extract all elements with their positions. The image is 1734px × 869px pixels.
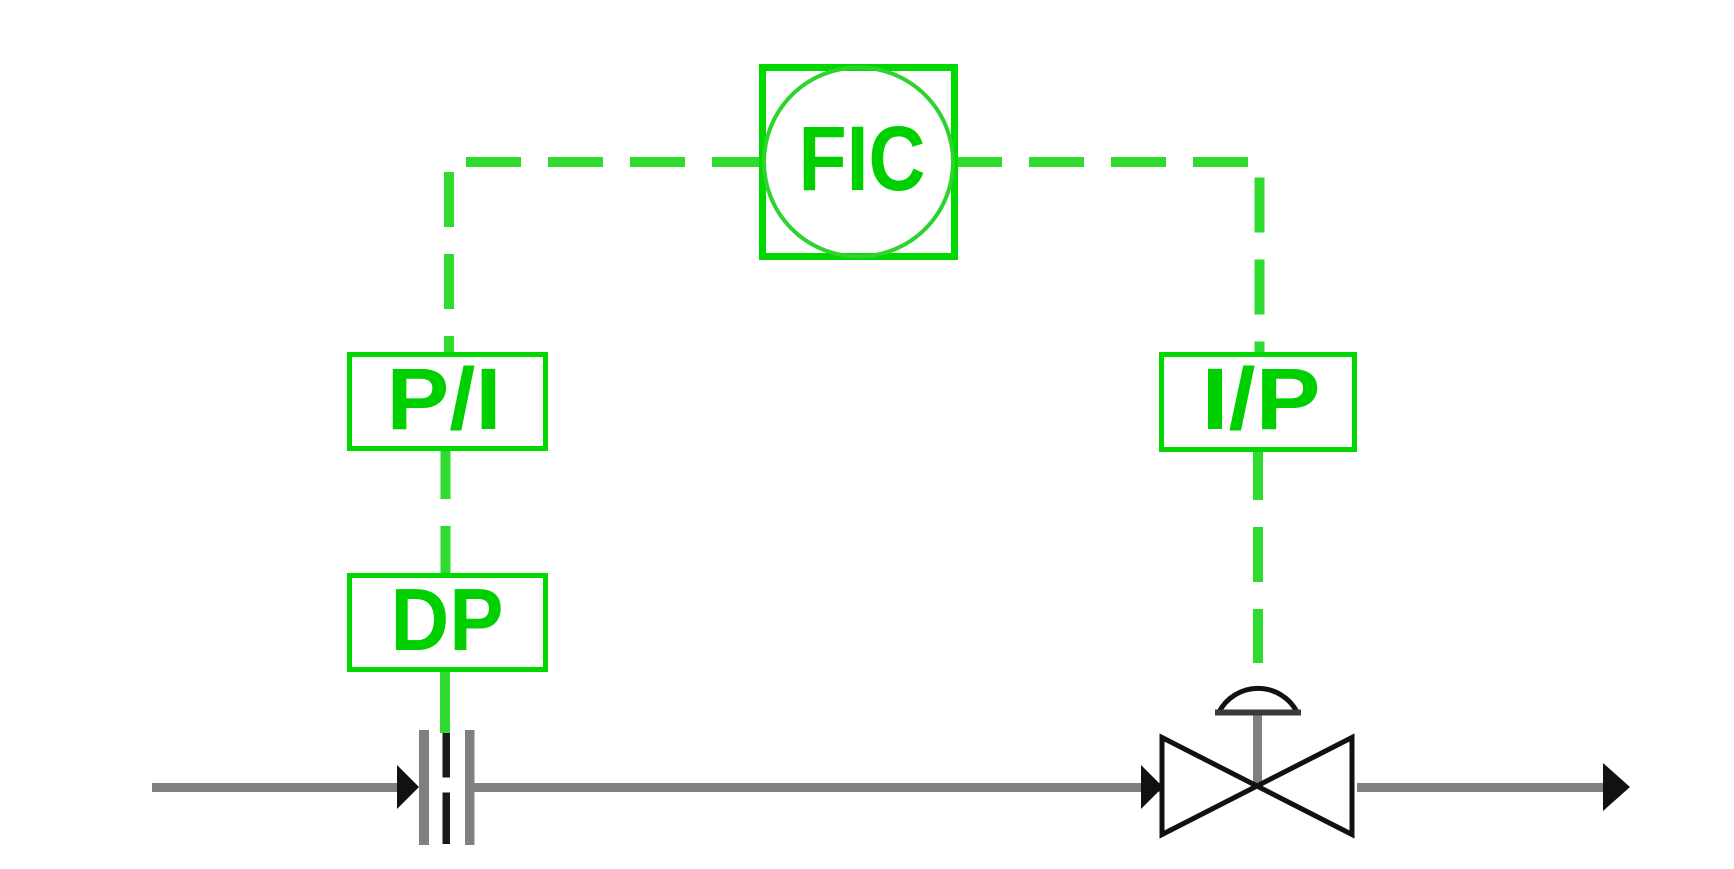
svg-text:P/I: P/I bbox=[387, 351, 502, 448]
svg-text:I/P: I/P bbox=[1202, 351, 1321, 448]
svg-text:DP: DP bbox=[391, 570, 504, 669]
svg-text:FIC: FIC bbox=[799, 108, 926, 210]
